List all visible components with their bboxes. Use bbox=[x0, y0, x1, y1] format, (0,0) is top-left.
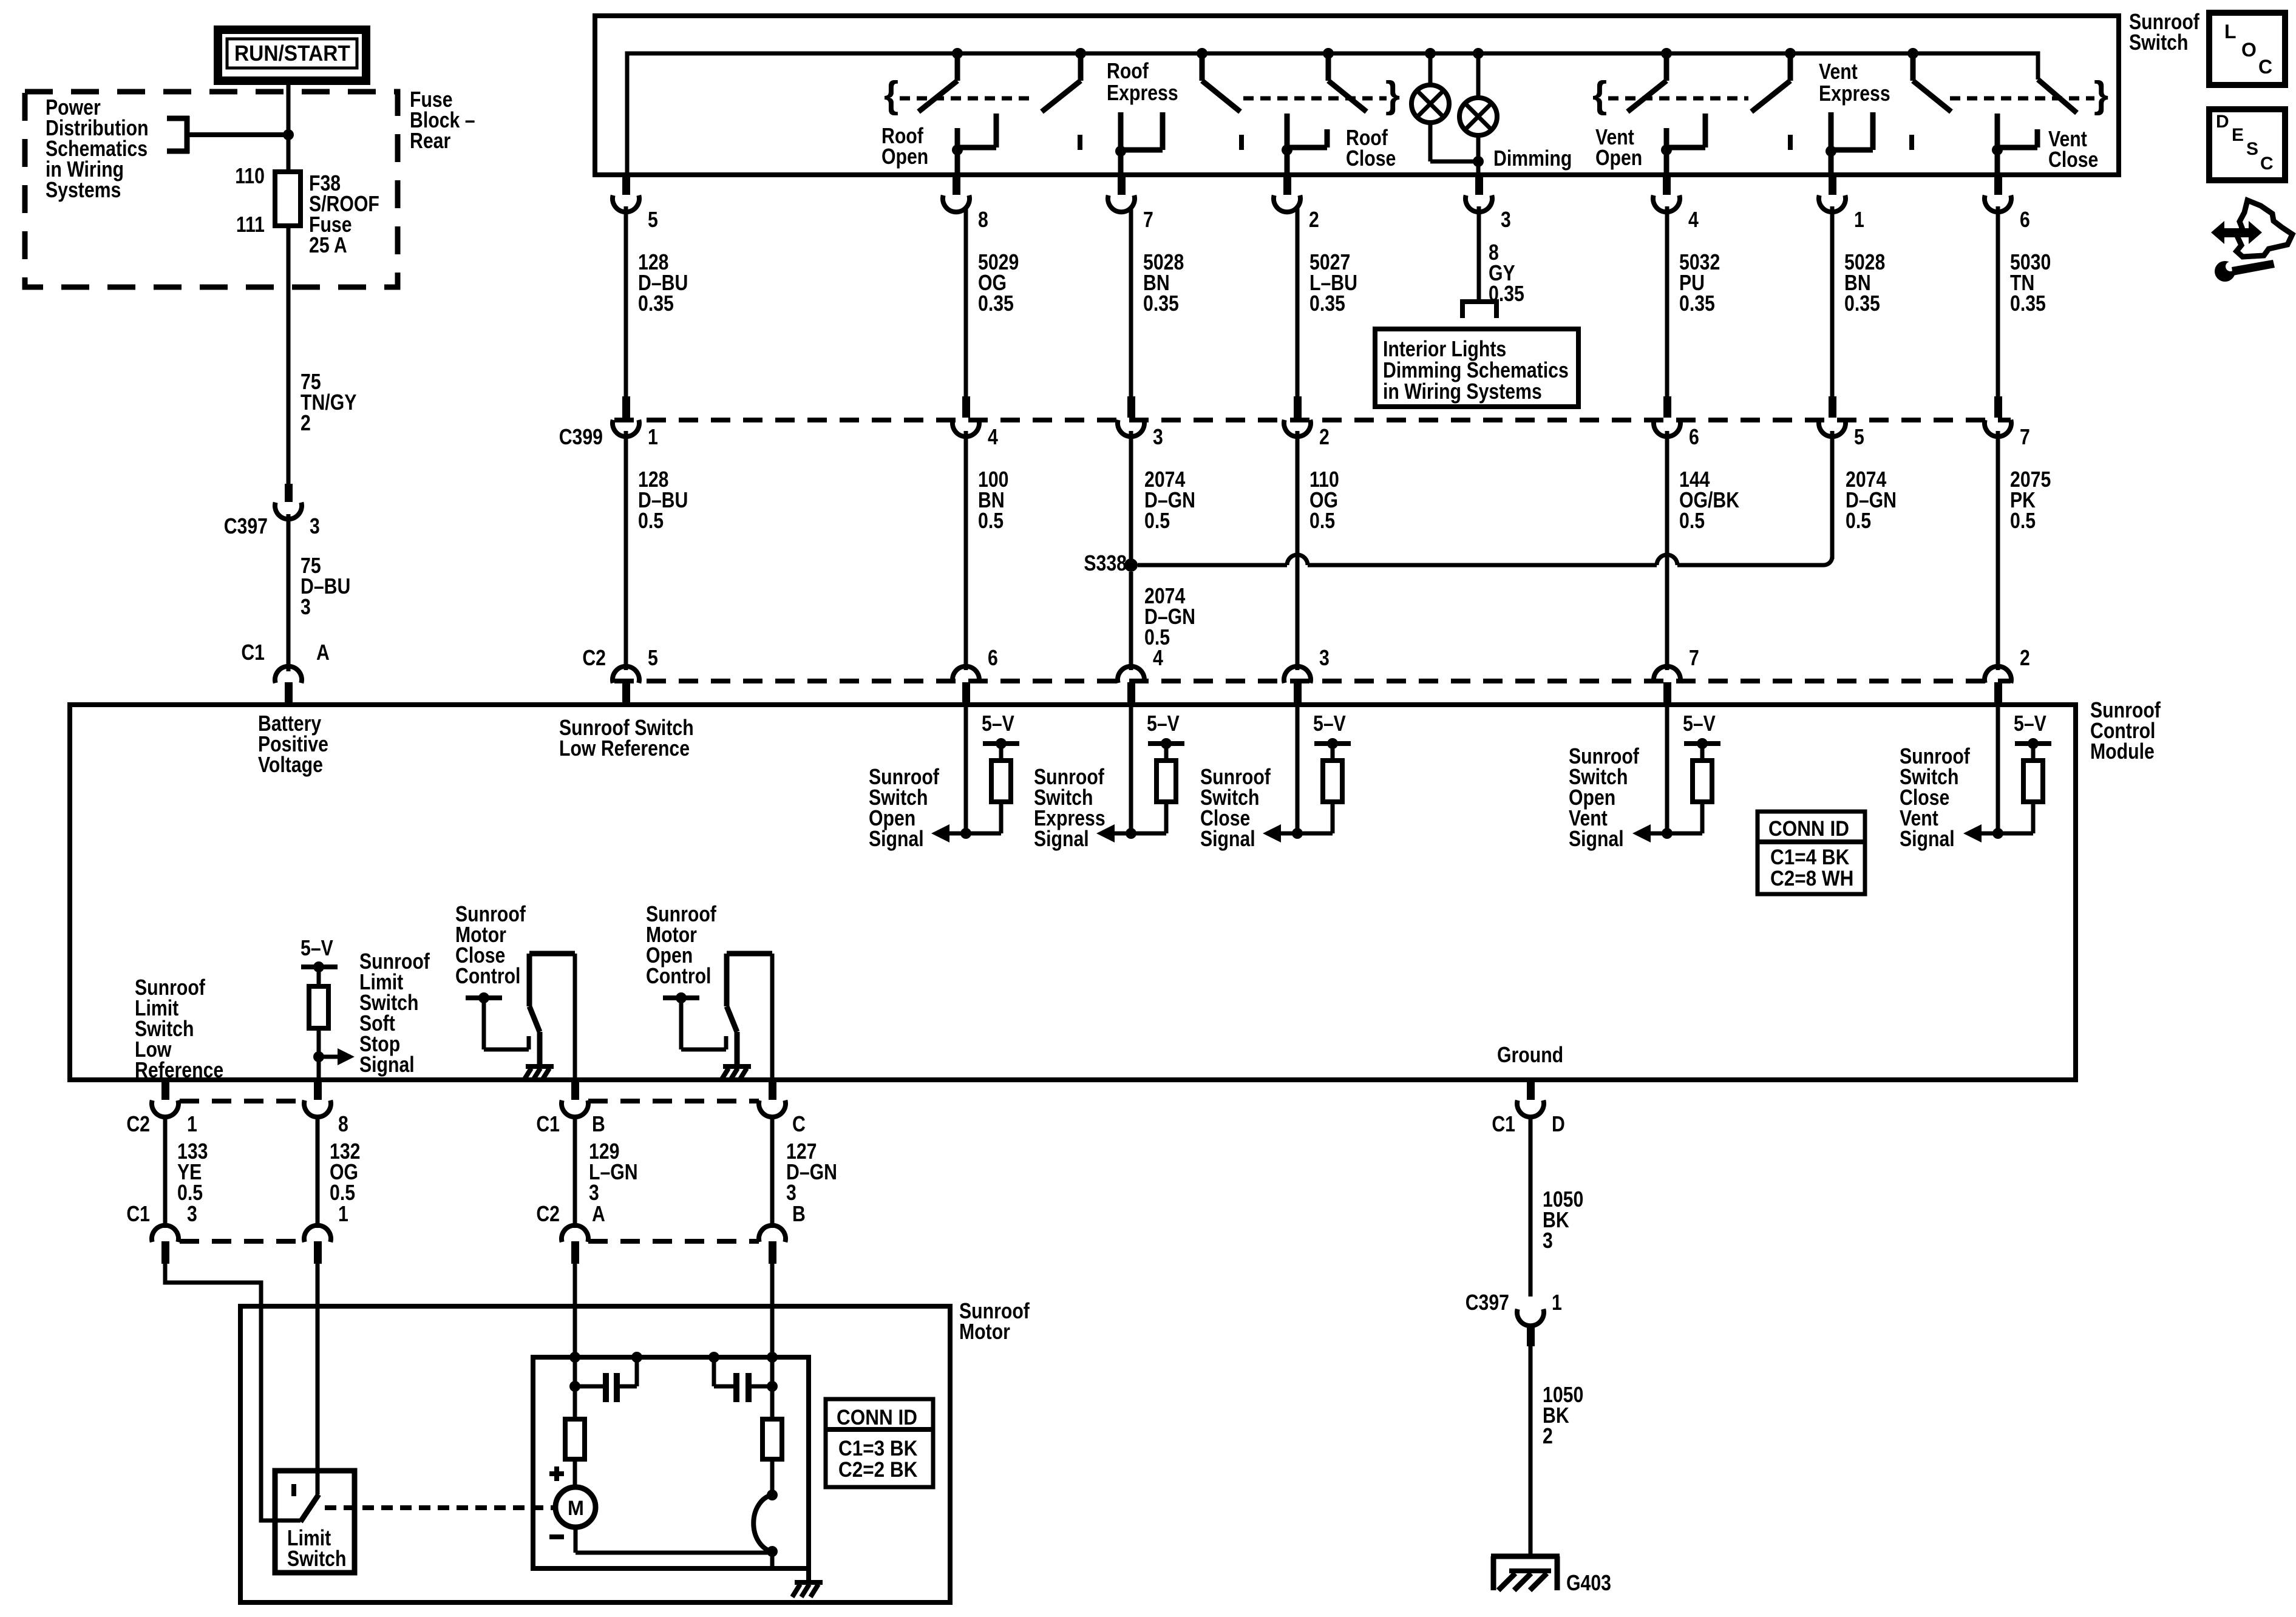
inner case junction node x=947 bbox=[569, 1352, 580, 1363]
C399 pin 7 stub bbox=[1994, 396, 2002, 418]
C399 pin 4 stub bbox=[962, 396, 970, 418]
contact vent express (pin 1) bbox=[1829, 112, 1834, 151]
svg-text:Control: Control bbox=[646, 964, 711, 989]
inner case junction node x=1176 bbox=[708, 1352, 719, 1363]
wire 127 D-GN mid bbox=[770, 1117, 775, 1228]
svg-text:C397: C397 bbox=[1466, 1291, 1509, 1315]
svg-text:1: 1 bbox=[648, 425, 658, 450]
svg-text:8: 8 bbox=[978, 208, 988, 232]
svg-text:0.5: 0.5 bbox=[978, 509, 1004, 534]
wire 100 BN lower segment bbox=[964, 431, 968, 670]
module input Sunroof Switch Close Vent Signal (pull-up resistor + arrow) bbox=[1996, 703, 2000, 833]
switch blade roof close bbox=[1326, 56, 1331, 81]
module input Sunroof Switch Close Signal (pull-up resistor + arrow) bbox=[1296, 703, 1300, 833]
svg-text:Ground: Ground bbox=[1497, 1043, 1563, 1068]
svg-text:4: 4 bbox=[1153, 646, 1163, 671]
svg-text:6: 6 bbox=[988, 646, 998, 671]
switch blade vent express left bbox=[1788, 56, 1793, 81]
svg-text:2: 2 bbox=[2020, 646, 2030, 671]
module pin C2-8 cup bbox=[304, 1100, 331, 1117]
sunroof switch pin 5 cup bbox=[613, 195, 639, 212]
wire contact to pin 8 bbox=[955, 150, 960, 175]
wire 75 D-BU 3 bbox=[287, 514, 291, 671]
commutator arc bbox=[767, 1490, 778, 1500]
wire 2074 D-GN col5 segment bbox=[1830, 431, 1835, 559]
svg-text:Low Reference: Low Reference bbox=[559, 737, 690, 761]
module pin C1-D stub bbox=[1527, 1082, 1535, 1100]
svg-text:Signal: Signal bbox=[1900, 827, 1955, 852]
position tick vent 1 bbox=[1788, 135, 1793, 150]
motor brush resistor left bbox=[573, 1357, 577, 1419]
sunroof switch pin 1 stub bbox=[1829, 176, 1836, 195]
capacitor left bbox=[569, 1381, 580, 1392]
bus junction node x=2745 bbox=[1661, 48, 1672, 59]
bus junction node x=2356 bbox=[1425, 48, 1436, 59]
close control chassis ground bbox=[526, 1064, 554, 1069]
C2 pin 3 stub bbox=[1294, 682, 1302, 703]
svg-text:110: 110 bbox=[235, 164, 265, 189]
power window icon (arrow and glass) bbox=[2211, 221, 2224, 244]
svg-text:0.35: 0.35 bbox=[638, 292, 674, 316]
C2 pin 7 cup bbox=[1654, 666, 1680, 683]
contact vent close (pin 6) bbox=[1995, 114, 2000, 147]
wire 5029 OG upper segment bbox=[964, 206, 968, 398]
sunroof switch pin 6 cup bbox=[1985, 195, 2011, 212]
wire 1050 BK 3 bbox=[1529, 1117, 1533, 1297]
motor pin C1-3 cup bbox=[152, 1225, 178, 1242]
C399 pin 5 stub bbox=[1829, 396, 1836, 418]
bus junction node x=2188 bbox=[1323, 48, 1334, 59]
svg-text:5–V: 5–V bbox=[301, 937, 333, 961]
limit switch blade bbox=[301, 1494, 319, 1522]
sunroof switch pin 7 stub bbox=[1118, 176, 1126, 195]
fuse block dashed box (Fuse Block - Rear) bbox=[25, 92, 398, 287]
svg-text:Signal: Signal bbox=[1200, 827, 1255, 852]
C2 pin 2 cup bbox=[1985, 666, 2011, 683]
svg-text:0.5: 0.5 bbox=[1144, 509, 1170, 534]
svg-text:O: O bbox=[2241, 39, 2257, 61]
motor brush resistor right bbox=[770, 1357, 775, 1419]
contact roof close (pin 2) bbox=[1285, 114, 1290, 147]
svg-text:C1: C1 bbox=[536, 1113, 560, 1137]
motor inner case box bbox=[533, 1357, 809, 1568]
svg-text:D: D bbox=[2216, 112, 2229, 132]
mech dashed link roof open bbox=[900, 97, 1035, 101]
motor pin C1-1 cup bbox=[304, 1225, 331, 1242]
svg-text:{: { bbox=[1592, 74, 1607, 116]
connector C399 dashed line bbox=[614, 418, 2011, 422]
svg-text:C1: C1 bbox=[1492, 1113, 1515, 1137]
sunroof switch pin 4 stub bbox=[1663, 176, 1671, 195]
svg-text:C2=8 WH: C2=8 WH bbox=[1770, 867, 1853, 891]
wire 132 OG mid bbox=[316, 1117, 320, 1228]
sunroof motor close control driver bbox=[466, 995, 502, 1000]
mech dashed link vent open bbox=[1608, 97, 1748, 101]
svg-text:in Wiring Systems: in Wiring Systems bbox=[1383, 380, 1542, 404]
svg-text:C2: C2 bbox=[582, 646, 606, 671]
ground G403 symbol bbox=[1491, 1554, 1560, 1559]
C2 pin 7 stub bbox=[1663, 682, 1671, 703]
connector C2 dashed line bbox=[614, 679, 2011, 683]
svg-text:7: 7 bbox=[1689, 646, 1699, 671]
wire 8 GY dimming segment bbox=[1477, 206, 1481, 299]
wire contact to pin 2 bbox=[1285, 150, 1290, 175]
label minus bbox=[549, 1534, 564, 1539]
svg-text:Systems: Systems bbox=[46, 178, 121, 203]
switch blade roof express left bbox=[1078, 56, 1084, 81]
svg-text:Voltage: Voltage bbox=[258, 753, 323, 778]
position tick roof 2 bbox=[1239, 135, 1244, 150]
contact roof express (pin 7) bbox=[1118, 112, 1124, 151]
inner case junction node x=1272 bbox=[767, 1352, 778, 1363]
svg-text:3: 3 bbox=[1543, 1229, 1553, 1253]
svg-text:}: } bbox=[2094, 74, 2108, 116]
module pin C2-1 stub bbox=[161, 1082, 169, 1100]
sunroof switch pin 2 stub bbox=[1283, 176, 1291, 195]
svg-text:2: 2 bbox=[1319, 425, 1330, 450]
svg-text:0.5: 0.5 bbox=[1309, 509, 1335, 534]
connector C397 pin 1 cup bbox=[1517, 1309, 1544, 1326]
position tick roof 1 bbox=[1078, 135, 1082, 150]
row2 dashed C2 segment bbox=[588, 1239, 759, 1244]
bus junction node x=2435 bbox=[1473, 48, 1484, 59]
svg-text:3: 3 bbox=[187, 1202, 197, 1227]
sunroof switch pin 2 cup bbox=[1274, 195, 1300, 212]
wire 5028 BN upper segment bbox=[1129, 206, 1133, 398]
svg-text:Express: Express bbox=[1107, 81, 1178, 106]
wire 129 L-GN mid bbox=[573, 1117, 577, 1228]
wire 2074 D-GN upper part bbox=[1129, 431, 1133, 565]
svg-text:0.5: 0.5 bbox=[638, 509, 664, 534]
svg-text:{: { bbox=[884, 74, 898, 116]
contact roof open (pin 8) bbox=[955, 128, 960, 147]
wire 1050 BK 2 bbox=[1529, 1346, 1533, 1556]
svg-text:CONN ID: CONN ID bbox=[1768, 818, 1849, 841]
mech dashed link roof close bbox=[1243, 97, 1387, 101]
switch blade vent express right bbox=[1911, 56, 1916, 81]
wire 144 OG/BK lower segment bbox=[1665, 431, 1669, 670]
switch internal bus wire bbox=[627, 53, 2038, 175]
svg-text:C397: C397 bbox=[224, 515, 268, 539]
mech dashed link vent close bbox=[1950, 97, 2094, 101]
module input Sunroof Switch Open Signal (pull-up resistor + arrow) bbox=[964, 703, 968, 833]
svg-text:5–V: 5–V bbox=[982, 712, 1014, 736]
row2 dashed C1 segment bbox=[180, 1239, 304, 1244]
DESC reference box bbox=[2209, 109, 2285, 180]
svg-text:C1=3 BK: C1=3 BK bbox=[838, 1437, 917, 1461]
wire contact to pin 4 bbox=[1664, 150, 1669, 175]
wire 5027 L–BU upper segment bbox=[1296, 206, 1300, 398]
connector C397 pin 3 male stub bbox=[285, 484, 293, 502]
svg-text:5–V: 5–V bbox=[1313, 712, 1346, 736]
svg-text:D: D bbox=[1552, 1113, 1565, 1137]
switch blade roof express right bbox=[1200, 56, 1205, 81]
svg-text:C399: C399 bbox=[559, 425, 603, 450]
limit switch mech dashed link bbox=[325, 1505, 555, 1510]
motor pin C2-B stub bbox=[769, 1241, 776, 1264]
svg-text:C2: C2 bbox=[126, 1113, 150, 1137]
C2 pin 6 stub bbox=[962, 682, 970, 703]
C399 pin 6 stub bbox=[1663, 396, 1671, 418]
soft stop junction node bbox=[313, 1051, 324, 1062]
C2 pin 4 cup bbox=[1118, 666, 1144, 683]
CONN ID box (module) bbox=[1758, 812, 1865, 894]
svg-text:C1=4 BK: C1=4 BK bbox=[1770, 846, 1849, 870]
svg-text:7: 7 bbox=[1143, 208, 1153, 232]
fuse F38 25A bbox=[275, 172, 301, 226]
row1 dashed C1 segment bbox=[588, 1099, 759, 1103]
open control chassis ground bbox=[723, 1064, 751, 1069]
svg-text:Module: Module bbox=[2090, 740, 2155, 764]
svg-text:C2=2 BK: C2=2 BK bbox=[838, 1459, 917, 1482]
C2 pin 2 stub bbox=[1994, 682, 2002, 703]
svg-text:5: 5 bbox=[648, 646, 658, 671]
svg-text:2: 2 bbox=[301, 412, 311, 436]
svg-text:Close: Close bbox=[1346, 147, 1396, 171]
motor pin C1-3 stub bbox=[161, 1241, 169, 1264]
svg-text:1: 1 bbox=[338, 1202, 348, 1227]
sunroof control module box bbox=[70, 705, 2076, 1080]
connector C397 pin 1 stub bbox=[1527, 1324, 1535, 1346]
svg-text:Dimming: Dimming bbox=[1493, 147, 1572, 171]
lamp junction node bbox=[1473, 156, 1484, 167]
svg-text:CONN ID: CONN ID bbox=[837, 1406, 917, 1430]
svg-text:A: A bbox=[316, 641, 330, 665]
C2 pin 3 cup bbox=[1284, 666, 1311, 683]
svg-text:Signal: Signal bbox=[869, 827, 924, 852]
svg-text:Switch: Switch bbox=[2129, 31, 2188, 55]
sunroof switch pin 3 stub bbox=[1475, 176, 1483, 195]
LOC reference box bbox=[2209, 13, 2285, 85]
svg-text:L: L bbox=[2224, 21, 2237, 42]
svg-text:3: 3 bbox=[301, 595, 311, 620]
sunroof switch pin 4 cup bbox=[1653, 195, 1680, 212]
row1 dashed C2 segment bbox=[180, 1099, 304, 1103]
wire 132 OG into motor bbox=[316, 1264, 320, 1494]
motor pin C2-A stub bbox=[571, 1241, 579, 1264]
C2 pin 5 stub bbox=[622, 682, 630, 703]
C399 pin 5 cup bbox=[1819, 420, 1846, 437]
C399 pin 3 stub bbox=[1127, 396, 1135, 418]
wrench icon bbox=[2215, 261, 2235, 282]
C2 pin 4 stub bbox=[1127, 682, 1135, 703]
svg-text:2: 2 bbox=[1309, 208, 1319, 232]
switch blade roof open bbox=[955, 56, 960, 81]
sunroof switch box bbox=[595, 16, 2119, 175]
svg-text:Open: Open bbox=[881, 145, 928, 169]
svg-text:1: 1 bbox=[187, 1113, 197, 1137]
motor pin C2-A cup bbox=[562, 1225, 588, 1242]
svg-text:6: 6 bbox=[1689, 425, 1699, 450]
sunroof switch pin 8 cup bbox=[943, 195, 970, 212]
svg-text:Signal: Signal bbox=[1569, 827, 1624, 852]
module soft stop pull-up (5-V resistor) bbox=[301, 964, 338, 969]
module input Sunroof Switch Open Vent Signal (pull-up resistor + arrow) bbox=[1665, 703, 1669, 833]
svg-text:}: } bbox=[1385, 74, 1400, 116]
illumination lamp 2 bbox=[1476, 56, 1481, 99]
sunroof switch pin 5 stub bbox=[622, 176, 630, 195]
illumination lamp 1 bbox=[1428, 56, 1433, 85]
goes-to bracket interior lights bbox=[1460, 299, 1499, 304]
wire 129 into motor bbox=[573, 1264, 577, 1357]
bus junction node x=2949 bbox=[1785, 48, 1796, 59]
svg-text:E: E bbox=[2232, 125, 2244, 145]
wire fuse to C397 bbox=[287, 226, 291, 485]
svg-text:0.35: 0.35 bbox=[1143, 292, 1179, 316]
svg-text:4: 4 bbox=[1688, 208, 1699, 232]
wire 5032 PU upper segment bbox=[1665, 206, 1669, 398]
bus junction node x=1980 bbox=[1197, 48, 1207, 59]
wire contact to pin 1 bbox=[1829, 150, 1834, 175]
sunroof motor open control driver bbox=[663, 995, 699, 1000]
C399 pin 1 stub bbox=[622, 396, 630, 418]
svg-text:0.5: 0.5 bbox=[1679, 509, 1705, 534]
svg-text:1: 1 bbox=[1552, 1291, 1562, 1315]
svg-text:Motor: Motor bbox=[959, 1320, 1010, 1344]
svg-text:0.35: 0.35 bbox=[1679, 292, 1715, 316]
capacitor right bbox=[767, 1381, 778, 1392]
svg-text:Control: Control bbox=[455, 964, 520, 989]
module pin C1-C stub bbox=[769, 1082, 776, 1100]
svg-text:Express: Express bbox=[1819, 82, 1890, 106]
junction node power feed bbox=[283, 129, 294, 140]
module pin C1-C cup bbox=[759, 1100, 786, 1117]
svg-text:0.5: 0.5 bbox=[2010, 509, 2036, 534]
bus junction node x=3151 bbox=[1907, 48, 1918, 59]
svg-text:5–V: 5–V bbox=[1683, 712, 1716, 736]
wire RUN/START to fuse bbox=[287, 81, 291, 172]
svg-text:4: 4 bbox=[988, 425, 998, 450]
svg-text:Signal: Signal bbox=[359, 1053, 415, 1077]
bus junction node x=1780 bbox=[1075, 48, 1086, 59]
wire contact to pin 6 bbox=[1995, 150, 2000, 175]
svg-text:3: 3 bbox=[1153, 425, 1163, 450]
soft stop signal arrow bbox=[319, 1055, 338, 1059]
svg-text:1: 1 bbox=[1854, 208, 1864, 232]
wire 128 D–BU upper segment bbox=[624, 206, 628, 398]
svg-text:B: B bbox=[792, 1202, 806, 1227]
sunroof motor box bbox=[240, 1306, 950, 1602]
C399 pin 2 stub bbox=[1294, 396, 1302, 418]
C399 pin 4 cup bbox=[953, 420, 979, 437]
switch blade vent close bbox=[2038, 80, 2077, 113]
motor case ground stub bbox=[806, 1568, 811, 1581]
wire 5030 TN upper segment bbox=[1996, 206, 2000, 398]
contact vent open (pin 4) bbox=[1664, 128, 1669, 147]
svg-text:B: B bbox=[592, 1113, 605, 1137]
wire 133 YE mid bbox=[163, 1117, 168, 1228]
svg-text:8: 8 bbox=[338, 1113, 348, 1137]
wire 2074 D-GN below S338 bbox=[1129, 572, 1133, 670]
C2 pin 5 cup bbox=[613, 666, 639, 683]
C399 pin 6 cup bbox=[1654, 420, 1680, 437]
sunroof switch pin 8 stub bbox=[953, 176, 960, 195]
svg-text:Vent: Vent bbox=[1819, 60, 1858, 84]
splice S338 node bbox=[1124, 558, 1138, 572]
motor M symbol bbox=[555, 1487, 596, 1527]
svg-text:5–V: 5–V bbox=[2014, 712, 2046, 736]
inner case junction node x=1049 bbox=[631, 1352, 642, 1363]
connector C1 pin A stub bbox=[285, 682, 293, 703]
svg-text:0.5: 0.5 bbox=[1846, 509, 1871, 534]
svg-text:0.35: 0.35 bbox=[1309, 292, 1345, 316]
wire dimming inside switch bbox=[1476, 161, 1481, 175]
svg-text:2: 2 bbox=[1543, 1425, 1553, 1449]
connector C1 pin A cup bbox=[275, 666, 302, 683]
svg-text:3: 3 bbox=[1319, 646, 1330, 671]
power feed box RUN/START bbox=[218, 30, 366, 81]
bus junction node x=1577 bbox=[952, 48, 963, 59]
interior lights box bbox=[1375, 329, 1578, 407]
svg-text:3: 3 bbox=[310, 515, 320, 539]
svg-text:S338: S338 bbox=[1084, 552, 1127, 576]
C399 pin 1 cup bbox=[613, 420, 639, 437]
svg-text:C: C bbox=[2260, 154, 2274, 174]
module pin C2-8 stub bbox=[314, 1082, 322, 1100]
sunroof switch pin 1 cup bbox=[1819, 195, 1846, 212]
C2 pin 6 cup bbox=[953, 666, 979, 683]
svg-text:7: 7 bbox=[2020, 425, 2030, 450]
svg-text:C: C bbox=[2258, 56, 2272, 78]
svg-text:0.35: 0.35 bbox=[2010, 292, 2046, 316]
svg-text:3: 3 bbox=[1501, 208, 1511, 232]
svg-text:C2: C2 bbox=[536, 1202, 560, 1227]
module input Sunroof Switch Express Signal (pull-up resistor + arrow) bbox=[1129, 703, 1133, 833]
wire 127 into motor bbox=[770, 1264, 775, 1357]
svg-text:Rear: Rear bbox=[410, 129, 450, 154]
svg-text:0.35: 0.35 bbox=[1844, 292, 1880, 316]
motor chassis ground bbox=[795, 1580, 823, 1585]
CONN ID box (motor) bbox=[826, 1399, 933, 1487]
svg-text:RUN/START: RUN/START bbox=[234, 42, 350, 66]
svg-text:Reference: Reference bbox=[135, 1059, 223, 1083]
wire 110 OG lower segment bbox=[1296, 431, 1300, 670]
svg-text:5–V: 5–V bbox=[1147, 712, 1180, 736]
power distribution bracket bbox=[167, 116, 189, 121]
limit switch fixed contact tick bbox=[291, 1484, 296, 1496]
C399 pin 3 cup bbox=[1118, 420, 1144, 437]
svg-text:Switch: Switch bbox=[287, 1547, 346, 1571]
connector C397 pin 3 female cup bbox=[275, 503, 302, 520]
wire 133 YE to limit switch bbox=[165, 1264, 301, 1520]
module pin C2-1 cup bbox=[152, 1100, 178, 1117]
svg-text:25 A: 25 A bbox=[309, 234, 347, 258]
svg-text:0.35: 0.35 bbox=[978, 292, 1014, 316]
splice S338 horizontal wire bbox=[1138, 563, 1287, 568]
svg-text:Roof: Roof bbox=[1107, 59, 1149, 84]
C399 pin 2 cup bbox=[1284, 420, 1311, 437]
svg-text:Signal: Signal bbox=[1034, 827, 1089, 852]
switch blade vent open bbox=[1664, 56, 1669, 81]
module pin C1-D cup bbox=[1517, 1100, 1544, 1117]
limit switch box bbox=[275, 1471, 355, 1573]
svg-text:6: 6 bbox=[2020, 208, 2030, 232]
svg-text:A: A bbox=[592, 1202, 605, 1227]
svg-text:Close: Close bbox=[2048, 148, 2098, 172]
svg-text:S: S bbox=[2246, 139, 2258, 159]
svg-text:G403: G403 bbox=[1566, 1571, 1611, 1596]
svg-text:M: M bbox=[568, 1497, 584, 1520]
wire 128 D–BU lower segment bbox=[624, 431, 628, 670]
wire 5028 BN upper segment bbox=[1830, 206, 1835, 398]
svg-text:5: 5 bbox=[1854, 425, 1864, 450]
svg-text:C: C bbox=[792, 1113, 806, 1137]
svg-text:Open: Open bbox=[1595, 146, 1642, 171]
module pin C1-B stub bbox=[571, 1082, 579, 1100]
motor bottom wire bbox=[574, 1527, 578, 1553]
svg-text:5: 5 bbox=[648, 208, 658, 232]
sunroof switch pin 6 stub bbox=[1994, 176, 2002, 195]
